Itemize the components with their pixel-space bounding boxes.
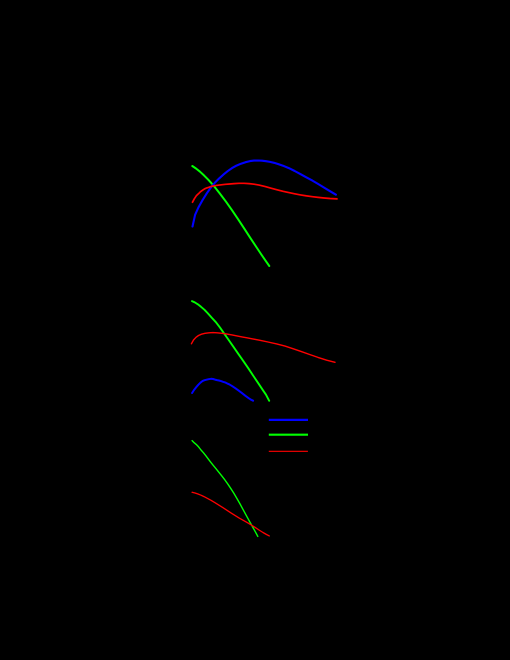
bottom plot green curve: [192, 441, 258, 537]
middle plot blue curve: [192, 379, 253, 401]
top plot red curve: [193, 183, 338, 202]
middle plot red curve: [191, 333, 335, 363]
top plot blue curve: [193, 161, 336, 227]
legend green sample line: [269, 434, 308, 436]
bottom plot red curve: [192, 492, 269, 536]
middle plot green curve: [192, 301, 269, 401]
legend blue sample line: [269, 419, 308, 421]
top plot green curve: [192, 166, 269, 266]
legend red sample line: [269, 450, 308, 452]
